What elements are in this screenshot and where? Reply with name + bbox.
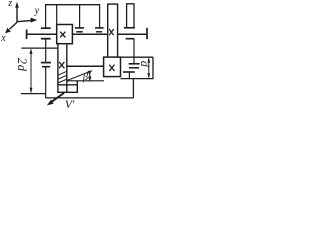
bearing B1 plates xyxy=(75,28,84,32)
axis z xyxy=(15,2,19,23)
frame top rail xyxy=(45,4,100,6)
hanger rod to gearbox U1 xyxy=(56,5,58,25)
wedge incline vector xyxy=(67,70,93,80)
hanger rod of bearing B2 xyxy=(99,5,101,28)
wheel D upper flange xyxy=(126,38,135,40)
wheel A upper flange xyxy=(41,27,51,29)
floor line left xyxy=(21,93,46,95)
bearing B2 plates xyxy=(95,28,104,32)
floor step xyxy=(45,94,47,98)
svg-text:x: x xyxy=(0,33,6,44)
wheel C lower plate xyxy=(42,66,50,68)
wheel A spindle down xyxy=(45,39,47,63)
pedestal flange xyxy=(123,71,135,73)
pedestal rod xyxy=(128,72,130,79)
svg-text:V′: V′ xyxy=(65,99,75,111)
axis x xyxy=(5,22,17,33)
screw block cross mark xyxy=(59,62,64,68)
frame right drop xyxy=(132,79,134,98)
wheel C spindle down xyxy=(45,67,47,94)
nut block bottom edge xyxy=(57,91,78,93)
gearbox U2 xyxy=(104,57,121,77)
left column shaft 3 housing xyxy=(58,44,67,93)
hanger rod of bearing B1 xyxy=(79,5,81,28)
drum bottom line xyxy=(121,78,154,80)
big pulley top line xyxy=(21,47,58,49)
hanger rod of wheel A xyxy=(45,5,47,28)
dimension 2d line xyxy=(30,48,33,93)
shaft 2 cross mark xyxy=(109,29,113,35)
velocity vector V xyxy=(47,93,64,105)
dimension d line xyxy=(147,58,150,79)
gearbox U1 cross mark xyxy=(60,32,65,38)
screw hatch xyxy=(58,71,67,83)
wheel C upper plate xyxy=(41,62,51,64)
drum top line xyxy=(121,56,154,58)
svg-text:y: y xyxy=(34,6,40,17)
bearing bracket B3 xyxy=(127,4,134,28)
bearing B4 plates xyxy=(129,64,140,68)
bearing B3 upper plate xyxy=(124,27,135,29)
svg-text:d: d xyxy=(138,61,152,68)
shaft 3 xyxy=(67,65,104,67)
nut block top edge xyxy=(58,84,77,86)
nut block right edge xyxy=(76,81,78,93)
gearbox U2 cross mark xyxy=(109,65,114,71)
shaft 1 xyxy=(26,33,147,35)
vertical shaft 2 housing xyxy=(107,4,118,57)
gearbox U1 xyxy=(57,25,73,44)
shaft 1 left end cap xyxy=(26,30,28,39)
svg-text:β: β xyxy=(82,72,89,83)
floor line main xyxy=(46,97,134,99)
wheel A lower flange xyxy=(41,38,51,40)
svg-text:2d: 2d xyxy=(15,58,29,72)
axis y xyxy=(17,18,37,23)
drum right edge xyxy=(152,57,154,78)
svg-text:z: z xyxy=(7,0,12,9)
descent arrow xyxy=(88,72,91,82)
wheel D rod down xyxy=(133,39,135,64)
wedge base line xyxy=(67,80,104,82)
shaft 1 right end cap xyxy=(146,28,148,39)
